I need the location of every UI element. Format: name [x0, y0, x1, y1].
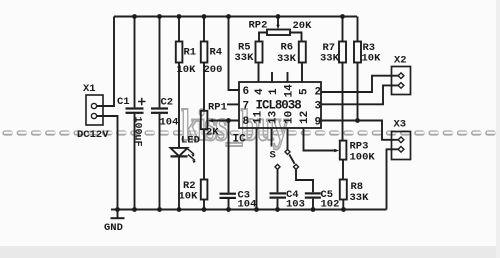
- node GND rail / C4 junction: [275, 207, 280, 212]
- wire switch left throw to C4: [277, 170, 279, 193]
- node V+ rail / RP2 wiper junction: [276, 14, 281, 19]
- ground: [117, 210, 119, 219]
- svg-text:LED: LED: [181, 135, 200, 147]
- svg-text:9: 9: [315, 117, 322, 129]
- node GND rail / LED junction: [177, 207, 182, 212]
- node GND rail / C5 junction: [311, 207, 316, 212]
- svg-text:R1: R1: [184, 47, 197, 59]
- node GND rail / pin11 junction: [254, 207, 259, 212]
- connector X1: [86, 95, 103, 125]
- svg-text:X3: X3: [394, 119, 407, 131]
- node GND rail / C2 junction: [157, 207, 162, 212]
- node V+ rail / pin6 junction: [226, 14, 231, 19]
- svg-text:14: 14: [284, 84, 296, 98]
- node V+ rail / R4 junction: [202, 14, 207, 19]
- svg-text:GND: GND: [104, 222, 123, 234]
- svg-text:6: 6: [243, 86, 250, 98]
- wire V+ to pin6: [229, 17, 240, 91]
- svg-text:4: 4: [254, 88, 266, 95]
- svg-text:33K: 33K: [320, 53, 340, 65]
- capacitor C5: [305, 192, 321, 194]
- svg-text:33K: 33K: [350, 192, 370, 204]
- potentiometer RP1: [201, 111, 208, 129]
- svg-text:3: 3: [315, 101, 322, 113]
- node V+ rail / C2 junction: [157, 14, 162, 19]
- svg-text:7: 7: [243, 101, 250, 113]
- node GND rail / C1 junction: [132, 207, 137, 212]
- wire switch right throw to C5: [296, 170, 313, 193]
- resistor R8: [340, 180, 347, 200]
- svg-text:1: 1: [268, 88, 280, 95]
- connector X2: [392, 67, 411, 95]
- svg-text:13: 13: [268, 110, 280, 124]
- wire X1 lower terminal to bottom rail: [97, 116, 118, 210]
- svg-text:104: 104: [238, 199, 257, 211]
- capacitor C3: [220, 193, 237, 195]
- node GND rail / X1 junction: [115, 207, 120, 212]
- wire pin3 to X2 lower: [321, 85, 398, 104]
- wire pin1 stub: [271, 72, 273, 82]
- capacitor C4: [270, 192, 287, 194]
- svg-text:DC12V: DC12V: [77, 129, 109, 141]
- svg-text:IC: IC: [233, 134, 247, 146]
- resistor R6: [299, 42, 306, 63]
- svg-text:102: 102: [321, 199, 340, 211]
- svg-text:C2: C2: [161, 97, 174, 109]
- svg-text:2K: 2K: [206, 127, 219, 139]
- potentiometer RP2: [277, 17, 279, 27]
- node GND rail / C3 junction: [226, 207, 231, 212]
- svg-text:RP1: RP1: [208, 102, 227, 114]
- wire pin8 net down to C3: [228, 121, 230, 193]
- svg-text:ICL8038: ICL8038: [256, 99, 302, 113]
- node GND rail / R2 junction: [202, 207, 207, 212]
- wire top V+ rail: [114, 16, 357, 18]
- resistor R7: [342, 17, 344, 42]
- svg-text:100uF: 100uF: [132, 117, 143, 147]
- resistor R1: [178, 17, 180, 42]
- svg-text:11: 11: [253, 110, 265, 124]
- svg-text:8: 8: [243, 116, 250, 128]
- svg-text:X2: X2: [394, 55, 407, 67]
- connector X3: [392, 132, 411, 160]
- node pin8 / RP1 wiper / C3 junction: [226, 118, 231, 123]
- switch S: [285, 149, 290, 154]
- wire pin10 to switch: [287, 128, 289, 149]
- svg-text:200: 200: [204, 64, 223, 76]
- svg-text:R6: R6: [281, 42, 294, 54]
- wire pin9 to X3 upper: [321, 121, 398, 140]
- node pin9 / R3 junction: [355, 118, 360, 123]
- wire pin12 to RP3 wiper: [304, 128, 337, 151]
- wire pin14 stub: [287, 72, 289, 82]
- svg-text:20K: 20K: [293, 20, 313, 32]
- wire left drop to X1 upper terminal: [97, 17, 114, 107]
- wire pin11 to GND: [256, 128, 258, 210]
- svg-text:10K: 10K: [362, 53, 382, 65]
- node V+ rail / R1 junction: [177, 14, 182, 19]
- svg-text:C1: C1: [117, 96, 130, 108]
- svg-text:R4: R4: [210, 47, 223, 59]
- wire pin7 stub: [227, 103, 239, 105]
- node V+ rail / C1 junction: [132, 14, 137, 19]
- svg-text:103: 103: [286, 199, 305, 211]
- LED D1: [171, 148, 188, 156]
- svg-text:104: 104: [160, 117, 179, 129]
- resistor R5: [256, 42, 263, 63]
- resistor R3: [357, 17, 359, 42]
- svg-text:100K: 100K: [350, 152, 376, 164]
- svg-text:5: 5: [299, 88, 311, 95]
- svg-text:33K: 33K: [277, 53, 297, 65]
- wire pin2 to X2 upper: [321, 76, 398, 92]
- resistor R2: [201, 180, 208, 200]
- capacitor C1: [134, 17, 136, 108]
- resistor R4: [203, 17, 205, 42]
- svg-text:RP2: RP2: [249, 20, 268, 32]
- capacitor C2: [159, 17, 161, 108]
- watermark dashed line: [5, 130, 500, 136]
- svg-text:10K: 10K: [179, 191, 199, 203]
- svg-text:33K: 33K: [235, 52, 255, 64]
- node V+ rail / R7 junction: [340, 14, 345, 19]
- op-amp U1 ICL8038 body: [239, 82, 321, 128]
- wire bottom GND rail: [111, 209, 387, 211]
- svg-text:10: 10: [284, 111, 296, 124]
- potentiometer RP3: [340, 141, 347, 160]
- op-amp U1 label and pin numbers: [243, 84, 322, 129]
- wire X3 lower to GND rail: [387, 149, 399, 209]
- svg-text:S: S: [270, 150, 276, 162]
- wire pin13 stub: [271, 128, 273, 147]
- svg-text:2: 2: [315, 87, 322, 99]
- node GND rail / R8 junction: [341, 207, 346, 212]
- svg-text:10K: 10K: [177, 64, 197, 76]
- svg-text:X1: X1: [83, 83, 96, 95]
- svg-text:12: 12: [299, 111, 311, 124]
